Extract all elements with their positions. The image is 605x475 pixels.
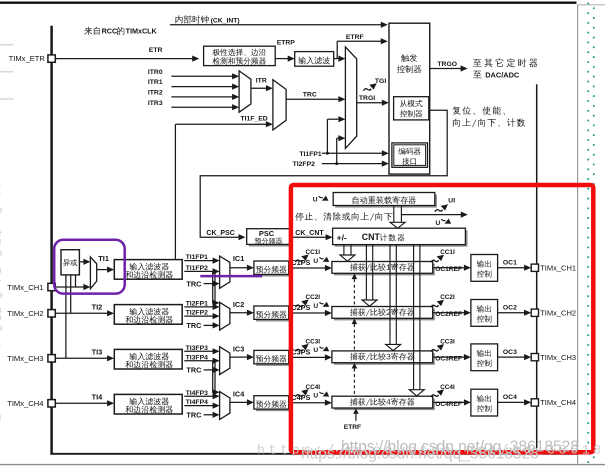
svg-text:TIMx_CH1: TIMx_CH1 [540,263,576,272]
wire ITR0 [171,75,233,77]
wire TI3FP4 to IC4 crossover [213,361,214,393]
svg-text:TI1F_ED: TI1F_ED [241,116,268,123]
double clock arrow CNT to CC4 register [413,245,415,391]
mux IC3 select [220,347,230,375]
wire IC2 to prescaler [230,312,248,314]
svg-text:+/-: +/- [337,232,347,242]
svg-text:TI4FP4: TI4FP4 [186,399,209,406]
label TIMxCLK from RCC [84,27,100,35]
svg-text:TIMx_CH4: TIMx_CH4 [7,399,43,408]
svg-text:2: 2 [0,231,2,238]
svg-text:U: U [313,393,318,400]
double arrow ARR to CNT [393,206,395,223]
wire TI4FP3 to IC3 crossover [214,361,216,397]
mux trigger input select [345,47,356,148]
left edge cropped sidebar marks [0,44,14,46]
box input filter and edge detector 2 [114,305,182,325]
svg-text:U: U [313,258,318,265]
svg-text:TIMx_CH4: TIMx_CH4 [540,398,576,407]
box CNT counter [335,230,468,246]
svg-text:TI1: TI1 [98,254,109,263]
svg-text:R: R [0,326,3,333]
wire ITR2 [171,96,233,98]
svg-text:TIMx_ETR: TIMx_ETR [9,54,46,63]
svg-text:IC2: IC2 [233,300,244,309]
box slave mode controller [394,97,429,120]
svg-text:TI2: TI2 [92,302,103,311]
pad TIMx_CH4 right [531,399,538,406]
box encoder interface [392,143,428,167]
box capture/compare 3 register [334,353,435,365]
pad TIMx_CH4 left [48,400,55,407]
svg-text:OC2REF: OC2REF [435,311,462,318]
pad TIMx_CH1 left [48,283,55,290]
svg-text:OC3: OC3 [503,349,517,356]
svg-text:4: 4 [0,315,2,322]
box prescaler channel 1 [256,263,291,276]
svg-text:TI1FP2: TI1FP2 [186,265,209,272]
wire ETRP [275,58,289,60]
double clock arrow CNT to CC2 register [365,245,367,301]
svg-text:ITR: ITR [256,78,267,85]
svg-text:TIMx_CH1: TIMx_CH1 [7,283,43,292]
wire slave mode control path CK_PSC [200,110,447,237]
svg-text:(CK_INT): (CK_INT) [211,17,240,24]
mux IC2 select [220,302,230,330]
page top border line [0,2,577,4]
box prescaler channel 3 [256,353,291,366]
pad TIMx_CH3 right [531,354,538,361]
svg-text:ETRP: ETRP [277,39,296,46]
wire TRC row 4 [204,414,214,416]
wire update event right [401,214,462,216]
svg-text:UI: UI [448,198,455,205]
svg-text:OC4: OC4 [503,394,517,401]
svg-text:ITR2: ITR2 [148,90,163,97]
svg-text:TIMxCLK: TIMxCLK [126,27,158,36]
wire CK_INT [170,24,382,26]
xor gate box [61,250,79,275]
box polarity selection edge detector prescaler [204,46,276,65]
teal dotted background pattern [587,2,589,4]
box input filter and edge detector 3 [114,349,182,369]
wire ITR to TRC mux [251,87,267,89]
label reset enable updown count [453,106,505,115]
svg-text:ITR1: ITR1 [148,79,163,86]
svg-text:TI3FP4: TI3FP4 [186,354,209,361]
svg-text:R: R [0,208,3,215]
svg-text:TRC: TRC [186,279,202,288]
svg-text:IC1: IC1 [233,254,244,263]
svg-text:1: 1 [0,276,2,283]
wire TI1 to filter [97,269,109,271]
wire TI4FP4 [184,405,214,407]
svg-text:2: 2 [0,415,2,422]
wire TIMx_CH1 input [55,286,84,288]
label capture/compare 3 register [350,353,415,361]
mux IC4 select [220,392,230,420]
wire OC1 [498,267,526,269]
wire TRGI [357,102,383,104]
svg-text:C1PS: C1PS [291,258,310,267]
wire TI1FP1 [184,260,214,262]
box prescaler channel 2 [256,308,291,321]
svg-text:OC2: OC2 [503,304,517,311]
wire IC3 to prescaler [230,356,248,358]
wire TRGO [430,68,462,70]
svg-text:1: 1 [0,189,2,196]
svg-text:ETRF: ETRF [346,34,364,41]
label stop clear updown [295,212,392,221]
wire TRC row 1 [204,283,214,285]
pad TIMx_CH2 right [531,309,538,316]
svg-text:DAC/ADC: DAC/ADC [485,70,520,79]
svg-text:CK_CNT: CK_CNT [295,230,324,237]
svg-text:ETR: ETR [149,47,163,54]
wire C2PS into register [289,312,327,314]
box output control 3 [471,344,498,371]
wire TI4 input [55,402,108,404]
box input filter ETR [295,52,334,67]
mux TRC select [273,80,286,130]
wire C3PS into register [289,356,327,358]
wire OC3REF [433,356,465,358]
wire ETRF into CC4 register [353,408,359,414]
wire ETRF to trigger controller [336,41,338,58]
svg-text:TI3FP3: TI3FP3 [186,345,209,352]
label internal clock CK_INT [176,15,209,24]
dashed capture event line [352,274,358,280]
right chip boundary bus [536,84,538,454]
page right frame line [577,5,579,464]
wire OC2 [498,312,526,314]
svg-text:OC1REF: OC1REF [435,266,462,273]
svg-text:TIMx_CH3: TIMx_CH3 [7,354,43,363]
label slave mode controller [400,100,423,107]
wire OC4 [498,401,526,403]
svg-text:IC3: IC3 [233,345,244,354]
double clock arrow CNT to CC1 register [343,245,345,256]
box trigger controller U_trigger [389,23,430,174]
svg-text:TGI: TGI [375,78,386,85]
box PSC prescaler [249,231,293,247]
svg-text:4: 4 [0,308,2,315]
wire IC1 to prescaler [230,267,248,269]
svg-text:TI1FP1: TI1FP1 [299,151,322,158]
svg-text:1: 1 [0,181,2,188]
wire ITR3 [171,106,233,108]
box prescaler channel 4 [256,398,291,411]
wire OC4REF [433,401,465,403]
svg-text:TIMx_CH3: TIMx_CH3 [540,353,576,362]
label to other timers to DAC ADC [473,58,537,67]
svg-text:TI2FP2: TI2FP2 [186,310,209,317]
svg-text:IC4: IC4 [233,389,245,398]
svg-text:CC2I: CC2I [440,294,455,301]
pad TIMx_ETR [48,55,55,62]
box input filter and edge detector 1 [114,260,182,280]
wire TI3FP4 [184,360,214,362]
wire filter to mux [334,58,340,60]
label trigger controller [401,54,417,62]
svg-text:TI2FP1: TI2FP1 [186,301,209,308]
wire C4PS into register [289,402,327,404]
svg-text:TRGO: TRGO [437,61,457,68]
svg-text:3: 3 [0,268,2,275]
svg-text:1: 1 [0,341,2,348]
box input filter and edge detector 4 [114,394,182,414]
wire CK_CNT [290,236,327,238]
svg-text:ITR3: ITR3 [148,100,163,107]
purple annotation underline [200,275,262,278]
svg-text:OC1: OC1 [503,259,517,266]
box capture/compare 1 register [334,264,435,276]
pad TIMx_CH1 right [531,264,538,271]
wire TI2FP2 to encoder and mux [322,163,383,165]
svg-text:U: U [313,347,318,354]
label encoder interface [398,148,420,155]
wire TI3 input [55,357,108,359]
svg-text:CNT: CNT [362,232,381,242]
label capture/compare 4 register [350,398,415,406]
svg-text:CC1I: CC1I [440,249,455,256]
wire TI1FP2 to IC2 crossover [213,271,214,303]
label capture/compare 1 register [350,263,415,271]
mux ITR select [239,71,251,112]
svg-text:TRC: TRC [186,366,202,375]
mux TI1 select [90,257,96,289]
page bottom separator line [0,464,605,466]
svg-text:TI4: TI4 [92,392,104,401]
svg-text:TRC: TRC [186,321,202,330]
wire C1PS into register [289,267,327,269]
wire TRC row 2 [204,324,214,326]
box capture/compare 4 register [334,398,435,410]
wire OC2REF [433,312,465,314]
svg-text:TRGI: TRGI [359,95,375,102]
svg-text:R: R [0,251,3,258]
box capture/compare 2 register [334,309,435,321]
svg-text:RCC: RCC [102,27,118,36]
svg-text:OC3REF: OC3REF [435,356,462,363]
left chip boundary bus [50,26,53,455]
wire ITR1 [171,86,233,88]
mux IC1 select [220,256,230,288]
svg-text:C4PS: C4PS [291,393,310,402]
svg-text:TI3: TI3 [92,347,103,356]
svg-text:TRC: TRC [303,91,317,98]
svg-text:C3PS: C3PS [291,348,310,357]
wire TI1FP2 [184,270,214,272]
wire xor output [79,261,84,263]
svg-text:CK_PSC: CK_PSC [206,230,234,237]
svg-text:ITR0: ITR0 [148,69,163,76]
svg-text:PSC: PSC [259,229,275,238]
wire IC4 to prescaler [230,401,248,403]
wire TRC to trigger mux [286,98,340,100]
red annotation rectangle [291,185,593,452]
pad TIMx_CH2 left [48,310,55,317]
svg-text:U: U [313,197,318,204]
label capture/compare 2 register [350,308,415,316]
wire TI2 input [55,312,108,314]
svg-text:TRC: TRC [186,411,202,420]
box auto-reload register [335,195,437,208]
box output control 4 [471,389,498,416]
wire TI2FP1 [184,306,214,308]
svg-text:TIMx_CH2: TIMx_CH2 [7,309,43,318]
svg-text:TI2FP2: TI2FP2 [293,161,316,168]
wire OC1REF [433,267,465,269]
purple annotation round rect [54,240,125,294]
svg-text:OC4REF: OC4REF [435,401,462,408]
svg-text:U: U [436,220,441,227]
svg-text:TIMx_CH2: TIMx_CH2 [540,308,576,317]
wire TRC row 3 [204,369,214,371]
wire TI1FP1 to encoder and mux [322,152,383,154]
wire ETR [55,58,193,60]
svg-text:ETRF: ETRF [344,424,361,431]
wire TI2FP1 to IC1 crossover [214,271,216,307]
svg-text:https://blog.csdn.net/qq_38618: https://blog.csdn.net/qq_38618528 [301,445,539,462]
double clock arrow CNT to CC3 register [389,245,391,345]
box output control 2 [471,300,498,327]
wire TI4FP3 [184,395,214,397]
svg-text:TI1FP1: TI1FP1 [186,254,209,261]
pad TIMx_CH3 left [48,355,55,362]
svg-text:C2PS: C2PS [291,303,310,312]
box output control 1 [471,255,498,282]
wire TI3FP3 [184,350,214,352]
svg-text:CC3I: CC3I [440,339,455,346]
wire xor input taps [65,275,67,358]
svg-text:TI4FP3: TI4FP3 [186,390,209,397]
svg-text:2: 2 [0,239,2,246]
wire TI2FP2 [184,315,214,317]
wire OC3 [498,356,526,358]
svg-text:U: U [313,303,318,310]
svg-text:R: R [0,293,3,300]
svg-text:CC4I: CC4I [440,384,455,391]
diagram bottom border [50,453,577,455]
wire TI1F_ED [174,124,176,259]
